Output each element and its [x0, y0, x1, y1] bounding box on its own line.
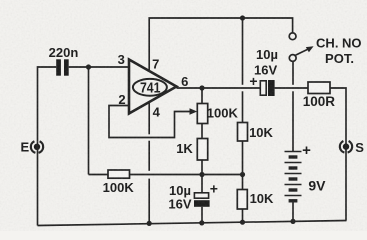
terminal E	[31, 141, 43, 153]
wire: 10K lower to 0V rail	[242, 209, 244, 222]
node: divider midpoint	[240, 172, 245, 177]
wire: 0V bottom rail	[38, 221, 347, 226]
op-amp U1 741 triangle	[129, 60, 177, 114]
switch arm with arrow	[295, 49, 308, 55]
wire: divider vertical segments	[242, 91, 244, 122]
resistor 100K (bias)	[108, 170, 130, 178]
wire: E down left rail	[37, 141, 39, 225]
wire: switch to battery + (crossover gap at output wire)	[292, 61, 294, 84]
wire: 220n to pin3	[69, 66, 129, 68]
switch contacts	[289, 33, 296, 40]
resistor 1K	[197, 139, 207, 161]
wire: pin6 output	[177, 87, 261, 89]
label 741	[140, 79, 161, 95]
wire: 100R to S output	[330, 88, 346, 221]
battery 9V	[285, 152, 302, 196]
capacitor 10u output	[260, 81, 266, 95]
resistor 10K lower	[237, 190, 247, 210]
wire: output down to pot	[201, 88, 203, 104]
node: cap at 0V rail	[199, 220, 204, 225]
wire: bias resistor to divider midpoint	[130, 174, 243, 176]
wire: mid bias horizontal	[89, 174, 109, 176]
node: battery at 0V rail	[290, 219, 295, 224]
capacitor 220n	[56, 59, 68, 75]
wire: output cap to 100R	[275, 87, 308, 89]
terminal S	[340, 141, 352, 153]
op-amp 741 ellipse badge	[133, 79, 167, 96]
node: divider at 0V rail	[240, 220, 245, 225]
resistor 100R	[308, 82, 330, 94]
wire: pot to 1K	[201, 124, 203, 139]
wire: 1K to mid-bias node	[201, 160, 203, 175]
wire: pin4 down to 0V rail (with crossover gaps)	[148, 102, 150, 135]
resistor 10K upper	[238, 123, 248, 142]
wiper arrowhead	[190, 108, 198, 114]
wire: feedback loop pin2 to pot wiper	[109, 106, 192, 138]
wire: input wire from left rail to 220n	[38, 67, 57, 141]
node: output junction	[199, 85, 204, 90]
wire: top +V rail	[149, 18, 292, 71]
node: 1K / cap junction	[199, 172, 204, 177]
wire: +V rail drop to divider	[242, 18, 244, 85]
node: input bias junction	[86, 64, 91, 69]
wire: bias drop from input junction	[88, 67, 90, 175]
node: pin4 at 0V rail	[147, 221, 152, 226]
wire: battery - to 0V rail	[292, 201, 294, 222]
potentiometer 100K	[197, 104, 207, 124]
node: top rail junction	[240, 15, 245, 20]
capacitor 10u decoupling	[201, 175, 203, 193]
